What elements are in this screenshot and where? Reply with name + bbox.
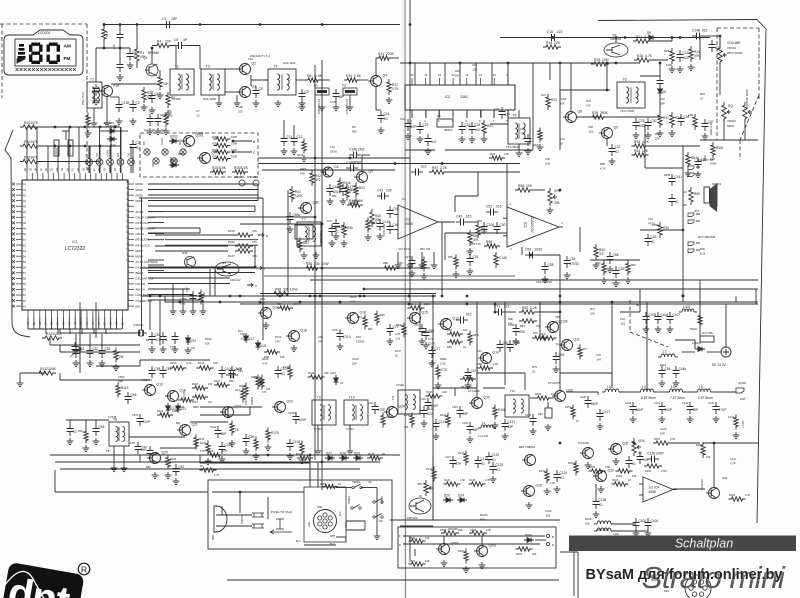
svg-text:CKL.P ON/OFF: CKL.P ON/OFF xyxy=(136,216,156,220)
wire xyxy=(151,48,153,64)
svg-text:22K: 22K xyxy=(655,137,660,141)
svg-text:UP: UP xyxy=(86,153,89,157)
wire xyxy=(93,108,95,120)
svg-text:10K: 10K xyxy=(213,361,218,365)
capacitor xyxy=(119,30,121,35)
resistor xyxy=(382,266,399,270)
transformer T7 xyxy=(297,222,321,246)
svg-text:C124: C124 xyxy=(560,471,568,475)
wire xyxy=(74,317,76,329)
junction xyxy=(254,266,257,269)
potentiometer xyxy=(718,45,722,65)
wire xyxy=(579,227,581,250)
resistor R82 xyxy=(519,310,537,314)
LCD glass xyxy=(15,39,76,66)
wire xyxy=(477,222,479,225)
svg-text:R112: R112 xyxy=(40,367,48,371)
wire xyxy=(530,189,545,191)
svg-text:D6: D6 xyxy=(662,90,666,94)
svg-text:22K: 22K xyxy=(242,166,249,170)
diode D31 xyxy=(187,335,189,345)
svg-text:150K: 150K xyxy=(245,399,248,405)
wire xyxy=(136,61,138,68)
capacitor C11 xyxy=(283,134,285,139)
svg-text:C78: C78 xyxy=(395,332,400,336)
svg-text:Q5: Q5 xyxy=(369,170,374,174)
wire xyxy=(96,47,130,49)
resistor R19 xyxy=(689,46,693,62)
capacitor C88 xyxy=(151,366,153,371)
wire xyxy=(559,90,561,150)
junction xyxy=(682,295,685,298)
ground xyxy=(331,240,333,243)
ground xyxy=(431,360,433,363)
svg-text:C47: C47 xyxy=(327,219,332,223)
junction xyxy=(494,311,497,314)
svg-text:SQ.: SQ. xyxy=(728,104,734,108)
transistor Q203 xyxy=(200,153,211,164)
wire xyxy=(150,216,240,218)
diode 1N4551 xyxy=(107,130,117,132)
svg-text:C19: C19 xyxy=(472,63,477,67)
wire xyxy=(57,146,59,173)
wire xyxy=(336,487,352,489)
page fold shadow xyxy=(401,0,407,598)
svg-text:C8: C8 xyxy=(259,87,263,91)
resistor R93 xyxy=(366,218,370,233)
svg-text:R147: R147 xyxy=(458,452,465,455)
resistor xyxy=(468,331,472,346)
capacitor xyxy=(456,319,461,321)
capacitor C44b xyxy=(675,366,677,371)
wire xyxy=(389,57,399,59)
svg-text:1M: 1M xyxy=(208,400,212,404)
transistor Q502 xyxy=(439,544,450,555)
ground xyxy=(301,100,303,103)
svg-text:C14: C14 xyxy=(384,112,390,116)
resistor xyxy=(86,113,90,128)
transistor Q30 xyxy=(596,471,607,482)
ground xyxy=(159,92,161,95)
svg-text:CKL.A: CKL.A xyxy=(136,232,144,236)
capacitor xyxy=(411,171,416,173)
svg-text:2.2K: 2.2K xyxy=(442,391,447,394)
junction xyxy=(259,301,262,304)
transistor KRA102 xyxy=(604,43,628,57)
x-mark xyxy=(52,68,55,71)
svg-text:R163: R163 xyxy=(585,517,592,521)
svg-text:R21: R21 xyxy=(487,124,493,128)
svg-text:R31: R31 xyxy=(663,116,669,120)
capacitor C85 xyxy=(95,424,97,429)
svg-text:Y5J-CT00B: Y5J-CT00B xyxy=(620,109,634,113)
resistor C70 xyxy=(436,365,440,380)
x-mark xyxy=(145,150,149,154)
svg-text:18/16: 18/16 xyxy=(330,150,337,154)
capacitor C83 xyxy=(101,346,103,351)
resistor R11 xyxy=(376,56,392,60)
wire xyxy=(704,35,720,37)
svg-text:47K: 47K xyxy=(473,238,480,242)
resistor xyxy=(302,139,306,154)
wire xyxy=(49,338,51,345)
svg-text:455KT: 455KT xyxy=(444,128,453,132)
wire xyxy=(28,328,122,330)
LED LD202 xyxy=(253,180,259,186)
svg-text:33K: 33K xyxy=(458,528,463,532)
filter F2 xyxy=(343,88,357,95)
svg-text:C32: C32 xyxy=(545,157,550,161)
svg-text:4.7K: 4.7K xyxy=(642,140,650,144)
svg-text:R153: R153 xyxy=(535,392,542,396)
svg-text:4.7P: 4.7P xyxy=(730,462,736,466)
resistor xyxy=(363,315,367,330)
transformer T11 xyxy=(398,390,420,414)
capacitor C79 xyxy=(389,324,391,329)
svg-text:.047: .047 xyxy=(431,140,437,144)
svg-text:1K: 1K xyxy=(463,345,466,349)
transistor Q8b xyxy=(301,203,312,214)
wire xyxy=(50,344,140,346)
svg-text:R145: R145 xyxy=(368,452,375,456)
svg-text:68K: 68K xyxy=(352,130,357,134)
ground xyxy=(335,233,337,236)
diode xyxy=(107,138,117,140)
wire xyxy=(682,351,695,353)
svg-text:KRC102: KRC102 xyxy=(407,516,418,520)
capacitor xyxy=(527,134,529,139)
capacitor C30 xyxy=(647,118,649,123)
ground xyxy=(527,148,529,151)
resistor xyxy=(375,311,379,326)
svg-text:IC2: IC2 xyxy=(445,95,450,99)
svg-text:1N60: 1N60 xyxy=(710,162,717,166)
wire xyxy=(240,303,497,305)
svg-text:R4: R4 xyxy=(157,39,161,43)
svg-text:C37: C37 xyxy=(708,120,714,124)
svg-text:MC: MC xyxy=(136,304,141,308)
resistor xyxy=(653,441,671,445)
jack xyxy=(688,166,694,170)
junction xyxy=(69,126,72,129)
junction xyxy=(339,301,342,304)
svg-text:T12: T12 xyxy=(510,389,515,393)
wire xyxy=(433,252,435,262)
ground xyxy=(532,428,534,431)
transistor G28 xyxy=(524,486,535,497)
resistor R86 xyxy=(304,266,321,270)
transistor Q31 xyxy=(611,444,622,455)
dashed boundary xyxy=(630,332,668,347)
wire xyxy=(148,232,200,234)
svg-text:SW40: SW40 xyxy=(690,328,697,331)
ground xyxy=(689,416,691,419)
LCD module LCD201 outline xyxy=(4,30,83,75)
svg-text:BLK: BLK xyxy=(339,511,342,516)
ground xyxy=(349,448,351,451)
svg-text:C25: C25 xyxy=(494,107,500,111)
wire xyxy=(227,407,229,417)
junction xyxy=(54,145,57,148)
capacitor C2 xyxy=(129,49,131,54)
wire xyxy=(160,447,196,449)
fuse xyxy=(700,336,714,342)
capacitor C59 xyxy=(615,266,617,271)
wire xyxy=(60,351,140,353)
svg-text:C84b: C84b xyxy=(118,375,125,379)
junction xyxy=(615,62,618,65)
wire xyxy=(409,296,411,302)
svg-text:D15: D15 xyxy=(356,335,361,339)
svg-text:R46: R46 xyxy=(347,226,353,230)
capacitor C80 xyxy=(499,340,501,345)
svg-text:10K: 10K xyxy=(404,426,409,429)
resistor R54 xyxy=(632,144,649,148)
capacitor C87 xyxy=(175,464,177,469)
svg-text:B: B xyxy=(552,535,554,539)
svg-text:R80: R80 xyxy=(508,317,513,321)
wire xyxy=(468,221,478,223)
svg-text:B20: B20 xyxy=(146,465,151,469)
svg-text:DE 13.2V: DE 13.2V xyxy=(712,363,727,367)
resistor xyxy=(574,461,578,476)
wire xyxy=(62,317,64,329)
wire xyxy=(148,183,164,185)
svg-text:D14: D14 xyxy=(477,350,482,353)
svg-text:F: F xyxy=(399,534,401,538)
svg-text:R9: R9 xyxy=(352,125,356,129)
wire xyxy=(421,252,423,262)
x-mark xyxy=(12,271,15,274)
junction xyxy=(719,35,722,38)
svg-text:C45: C45 xyxy=(393,207,399,211)
resistor xyxy=(410,413,414,428)
wire xyxy=(432,296,434,455)
wire xyxy=(258,157,410,159)
svg-text:VR302: VR302 xyxy=(727,119,736,123)
junction xyxy=(466,303,469,306)
svg-text:.01: .01 xyxy=(384,117,389,121)
svg-text:C7040: C7040 xyxy=(172,97,181,101)
ground xyxy=(172,308,174,311)
capacitor xyxy=(659,76,661,81)
wire xyxy=(199,228,201,233)
wire xyxy=(506,164,508,208)
svg-text:R109: R109 xyxy=(205,337,212,341)
svg-text:1.470P: 1.470P xyxy=(742,420,745,428)
inductor xyxy=(594,523,597,525)
junction xyxy=(309,295,312,298)
svg-text:100K: 100K xyxy=(231,135,237,139)
capacitor C54 xyxy=(525,254,530,256)
wire xyxy=(283,120,285,134)
wire xyxy=(120,127,122,173)
resistor xyxy=(157,413,173,417)
svg-text:R103: R103 xyxy=(24,155,32,159)
svg-text:C86: C86 xyxy=(131,393,137,397)
wire xyxy=(617,116,660,118)
svg-text:3.8: 3.8 xyxy=(683,190,687,194)
svg-text:.022: .022 xyxy=(556,30,563,34)
svg-text:R47: R47 xyxy=(432,166,438,170)
wire xyxy=(254,206,256,212)
ground xyxy=(425,342,427,345)
svg-text:C49: C49 xyxy=(456,215,462,219)
wire xyxy=(345,537,347,542)
wire xyxy=(649,59,668,61)
junction xyxy=(559,442,562,445)
capacitor xyxy=(661,402,663,407)
junction xyxy=(179,301,182,304)
wire xyxy=(346,529,365,531)
transistor Q201 xyxy=(184,136,195,147)
jack JK2 xyxy=(688,213,694,217)
wire xyxy=(50,454,400,456)
svg-text:D202: D202 xyxy=(170,159,178,163)
diode D6 xyxy=(659,86,661,96)
svg-text:W3: W3 xyxy=(222,261,226,265)
svg-text:C72: C72 xyxy=(596,353,601,357)
wire xyxy=(549,63,551,80)
svg-text:BYsaM для forum.onliner.by: BYsaM для forum.onliner.by xyxy=(586,567,783,583)
svg-text:R82: R82 xyxy=(522,306,528,310)
svg-text:R118: R118 xyxy=(192,382,199,386)
wire xyxy=(476,302,478,397)
capacitor C107 xyxy=(277,366,279,371)
junction xyxy=(84,126,87,129)
resistor xyxy=(545,469,549,484)
wire xyxy=(397,252,399,262)
svg-text:C13: C13 xyxy=(683,51,689,55)
wire xyxy=(88,165,90,173)
wire xyxy=(349,95,351,104)
wire xyxy=(654,391,669,393)
svg-text:100K: 100K xyxy=(48,367,57,371)
svg-text:R505: R505 xyxy=(440,528,447,532)
arrow xyxy=(270,530,292,534)
wire xyxy=(547,402,549,408)
ground xyxy=(409,262,411,265)
ground xyxy=(221,456,223,459)
wire xyxy=(68,127,70,173)
wire xyxy=(85,420,87,430)
junction xyxy=(633,442,636,445)
svg-text:18/16: 18/16 xyxy=(297,154,304,157)
svg-text:TDA2003V: TDA2003V xyxy=(530,216,534,233)
x-mark xyxy=(12,260,15,263)
svg-text:R99: R99 xyxy=(260,297,265,301)
svg-text:10K: 10K xyxy=(163,82,170,86)
svg-text:DN: DN xyxy=(142,141,146,145)
junction xyxy=(99,145,102,148)
wire xyxy=(432,455,434,520)
svg-text:C139: C139 xyxy=(545,509,552,513)
x-mark xyxy=(172,159,176,163)
wire xyxy=(438,221,455,223)
svg-text:C407: C407 xyxy=(673,313,681,317)
junction xyxy=(530,254,533,257)
transformer T3 xyxy=(201,69,225,95)
svg-text:C59: C59 xyxy=(619,267,625,271)
wire xyxy=(5,130,30,337)
svg-text:R206: R206 xyxy=(212,148,219,152)
ground xyxy=(321,104,323,107)
svg-text:R10: R10 xyxy=(346,74,352,78)
svg-text:R107: R107 xyxy=(228,254,235,258)
diode D29 xyxy=(353,457,363,459)
wire xyxy=(59,345,61,352)
junction xyxy=(99,126,102,129)
svg-text:C120: C120 xyxy=(462,422,469,425)
svg-text:R23: R23 xyxy=(551,98,557,102)
transistor Q8 xyxy=(566,112,577,123)
svg-text:C85: C85 xyxy=(99,425,105,429)
ground xyxy=(231,440,233,443)
svg-text:.015: .015 xyxy=(495,205,502,209)
resistor xyxy=(729,497,746,501)
resistor R103 xyxy=(20,159,40,163)
wire xyxy=(214,269,216,296)
terminal I xyxy=(256,266,262,270)
wire xyxy=(99,165,101,173)
svg-text:R140: R140 xyxy=(404,414,411,417)
wire xyxy=(577,552,579,598)
wire xyxy=(590,259,640,261)
svg-text:R79: R79 xyxy=(532,365,537,369)
svg-text:R151b: R151b xyxy=(568,462,576,465)
resistor R34 xyxy=(670,112,674,128)
svg-text:2G3-120R: 2G3-120R xyxy=(203,97,216,101)
svg-text:G02: G02 xyxy=(722,476,728,480)
antenna T xyxy=(62,131,70,140)
wire xyxy=(227,579,559,581)
resistor R60 xyxy=(594,244,598,260)
wire xyxy=(432,455,434,520)
wire xyxy=(258,163,410,165)
svg-text:10K: 10K xyxy=(425,537,430,540)
svg-text:VR6: VR6 xyxy=(638,439,645,443)
resistor xyxy=(256,375,260,390)
wire xyxy=(141,198,143,330)
svg-text:R151: R151 xyxy=(46,332,54,336)
ground xyxy=(481,562,483,565)
svg-text:R161: R161 xyxy=(616,475,623,478)
resistor xyxy=(444,482,461,486)
wire xyxy=(518,110,520,118)
svg-text:5V1: 5V1 xyxy=(191,347,196,350)
junction xyxy=(606,89,609,92)
svg-text:390K: 390K xyxy=(600,111,609,115)
capacitor C124 xyxy=(556,470,558,475)
x-mark xyxy=(12,266,15,269)
wire xyxy=(186,45,200,47)
transistor xyxy=(583,448,594,459)
svg-text:4.7K: 4.7K xyxy=(745,494,750,497)
svg-text:R82b: R82b xyxy=(440,357,447,361)
transformer T1 xyxy=(87,82,102,108)
ground xyxy=(657,326,659,329)
wire xyxy=(321,95,323,104)
ground xyxy=(157,128,159,131)
potentiometer xyxy=(424,480,428,496)
wire xyxy=(534,311,560,313)
resistor xyxy=(477,366,493,370)
microphone MD1 xyxy=(214,506,227,532)
wire xyxy=(611,530,648,532)
junction xyxy=(682,295,685,298)
svg-text:LCD201: LCD201 xyxy=(38,31,51,35)
svg-text:R205: R205 xyxy=(234,166,242,170)
